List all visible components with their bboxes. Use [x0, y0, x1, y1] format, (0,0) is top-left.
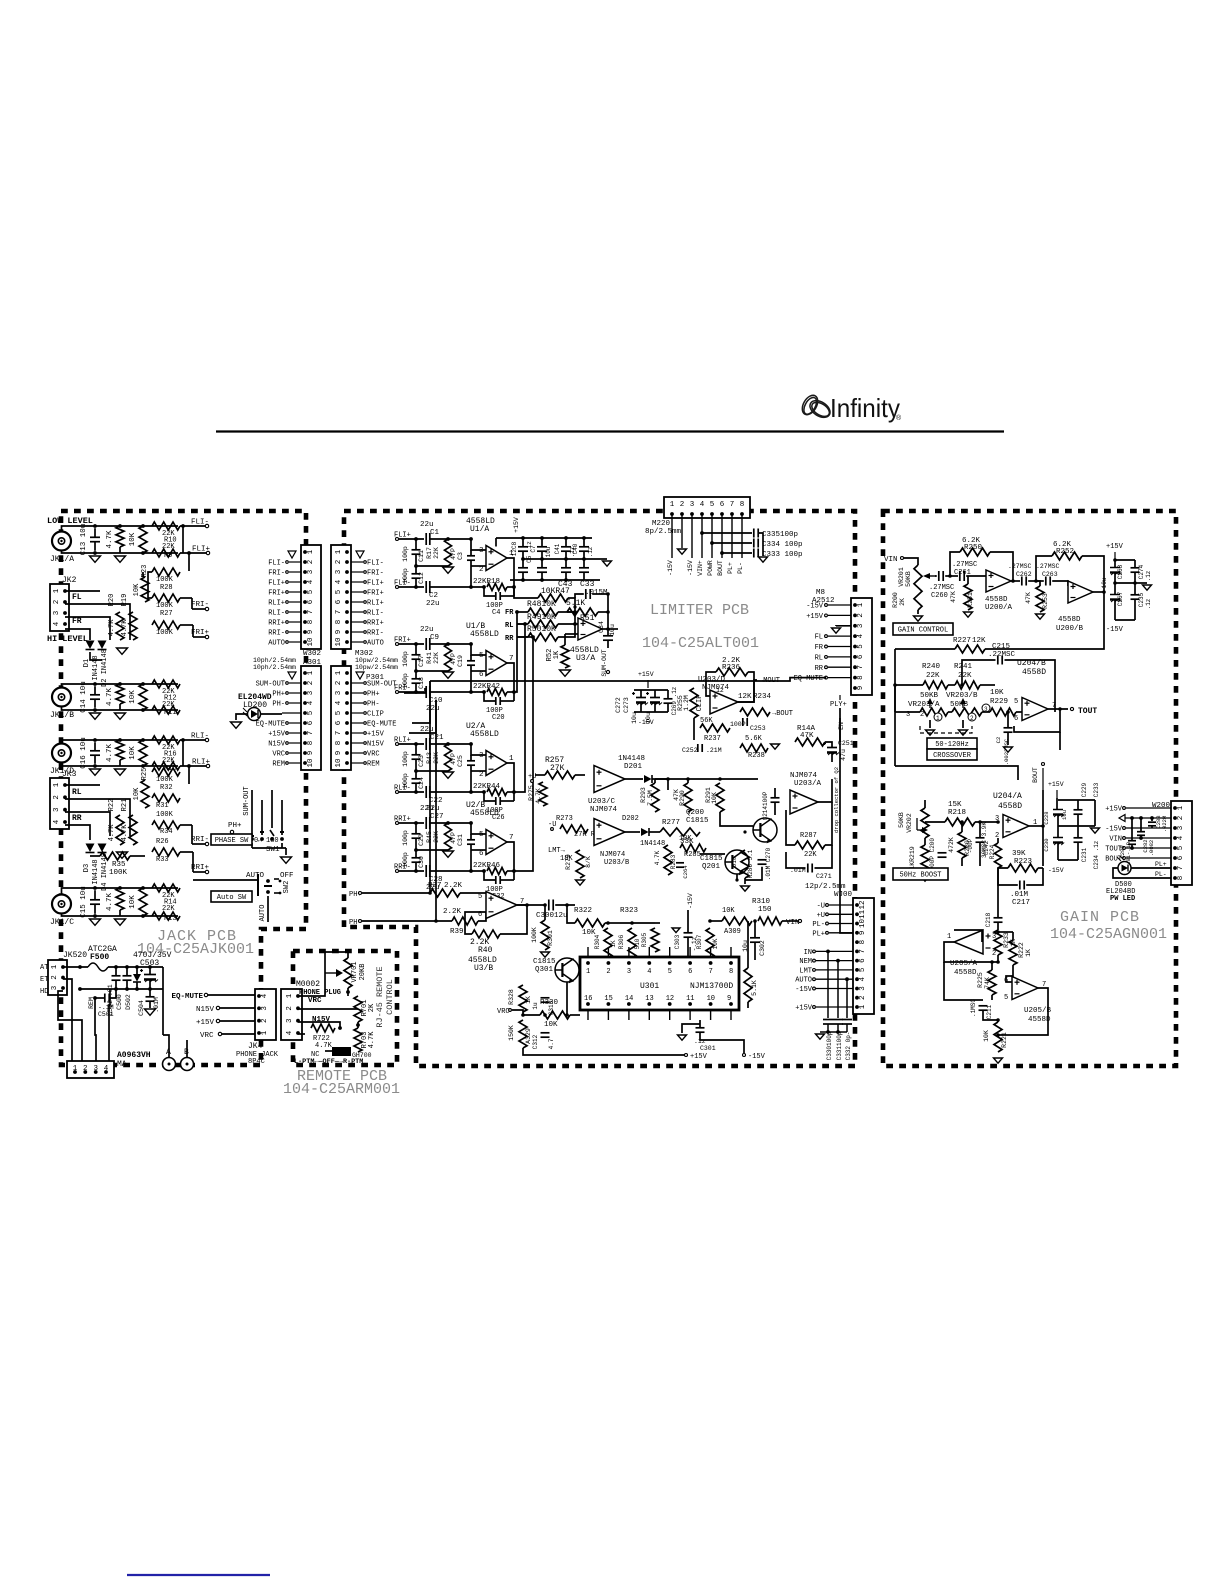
row6 row top rail — [62, 888, 179, 895]
mid rail bot — [634, 711, 668, 713]
capacitor grid top 12C8 — [518, 547, 528, 551]
svg-text:10pw/2.54mm: 10pw/2.54mm — [355, 664, 398, 671]
svg-text:2: 2 — [920, 711, 924, 719]
VRC label remote — [308, 997, 322, 1005]
phase sw wires — [251, 790, 253, 835]
svg-text:22K: 22K — [433, 547, 440, 559]
capacitor C211 .1MSC — [979, 1006, 988, 1010]
svg-text:C7: C7 — [530, 545, 537, 553]
svg-text:U203/C: U203/C — [588, 798, 616, 806]
U1/B - wire2 — [430, 691, 484, 693]
c503 lead2 — [149, 980, 151, 990]
svg-text:3: 3 — [51, 985, 59, 990]
c300 out — [555, 904, 575, 906]
U2/A + wire2 — [430, 743, 471, 745]
svg-text:N15V: N15V — [196, 1006, 215, 1014]
r322 wire — [567, 905, 575, 923]
transistor Q301 — [555, 958, 579, 983]
R306 label — [618, 934, 641, 949]
capacitor C19 47P — [467, 661, 475, 665]
svg-text:104-C25ALT001: 104-C25ALT001 — [642, 635, 759, 652]
U2/A cb1 lead2 — [415, 760, 417, 772]
resistor R39 2.2K — [452, 917, 478, 925]
r51 wires2 — [598, 611, 608, 613]
c34 lead2 — [607, 640, 609, 648]
resistor R257 27K — [535, 771, 585, 779]
5.1K R51 label — [566, 599, 595, 623]
footer blue rule — [127, 1574, 270, 1576]
F500 label — [88, 945, 117, 962]
resistor R24 100K — [152, 621, 180, 629]
SW1 label — [266, 846, 280, 854]
resistor R45 22K — [445, 823, 452, 850]
grid lead b21 — [541, 572, 543, 580]
op-amp U203/B — [594, 819, 625, 846]
resistor R307 10K — [706, 928, 714, 958]
C501 labels — [88, 997, 114, 1018]
ground row4 — [117, 852, 128, 858]
arrow A301 pin1 — [288, 672, 296, 679]
cap grid label 1 — [530, 545, 552, 557]
svg-text:9: 9 — [859, 931, 867, 936]
diode D1 1N4148 — [86, 641, 95, 650]
svg-text:Auto SW: Auto SW — [217, 894, 247, 902]
A wire — [163, 1035, 169, 1057]
U1/B fb right — [507, 691, 514, 693]
c242 w2 — [979, 842, 981, 866]
svg-text:10u: 10u — [1101, 577, 1108, 588]
ground R251 — [964, 612, 973, 617]
U205/A pins — [947, 933, 996, 958]
svg-text:C217: C217 — [1012, 899, 1030, 907]
svg-text:22K: 22K — [926, 672, 940, 680]
W200 signal labels — [1105, 806, 1171, 864]
svg-text:VR203/B: VR203/B — [946, 692, 978, 700]
svg-text:R25: R25 — [141, 768, 149, 781]
capacitor C200 1000P — [938, 853, 947, 857]
svg-text:C20: C20 — [492, 714, 505, 722]
C280 label — [1119, 841, 1132, 868]
CROSSOVER box — [927, 749, 977, 760]
svg-text:C25: C25 — [457, 755, 464, 767]
svg-text:REM: REM — [367, 761, 380, 769]
remote wire3 — [298, 1022, 340, 1028]
op-amp U200/B — [1068, 581, 1093, 603]
C242 label — [967, 838, 990, 855]
C262 label — [1008, 563, 1032, 578]
R40 label — [470, 938, 493, 955]
svg-text:-.1M: -.1M — [98, 1004, 114, 1011]
resistor R221 10K — [994, 1022, 1002, 1052]
R252 label — [1053, 541, 1074, 556]
ground row4 a — [90, 769, 101, 775]
svg-text:VIN+: VIN+ — [697, 560, 704, 576]
ground row6 b — [115, 919, 126, 925]
R1 label — [106, 530, 114, 549]
resistor R27 100K — [152, 594, 180, 602]
svg-text:7.5M: 7.5M — [647, 790, 654, 806]
connector M220 — [664, 497, 750, 518]
w200 vert3b — [1131, 845, 1133, 848]
capacitor C33 .015M — [586, 589, 590, 599]
R46 label — [473, 862, 501, 870]
R722 labels — [313, 1035, 333, 1050]
C216 label — [995, 737, 1010, 766]
svg-text:C3: C3 — [457, 552, 464, 560]
LD200 labels — [238, 693, 272, 710]
svg-text:3: 3 — [859, 986, 867, 991]
svg-text:PH+: PH+ — [272, 691, 285, 699]
R305 label — [641, 932, 648, 947]
svg-text:1: 1 — [73, 1065, 78, 1073]
svg-text:C41: C41 — [554, 543, 561, 554]
svg-text:R224: R224 — [989, 844, 996, 859]
svg-text:RR: RR — [505, 635, 514, 643]
C211 label — [970, 999, 993, 1020]
TOUT node — [1070, 707, 1097, 716]
svg-text:6: 6 — [857, 654, 865, 659]
gcap gnd — [1135, 582, 1147, 584]
svg-text:2K: 2K — [899, 598, 906, 606]
svg-text:22u: 22u — [426, 705, 440, 713]
U2/A fb right — [507, 791, 514, 793]
svg-text:R34: R34 — [160, 828, 173, 836]
svg-text:22KR44: 22KR44 — [473, 783, 501, 791]
remote wire4 — [298, 1033, 305, 1035]
node RRI+ — [394, 816, 411, 825]
svg-text:RR: RR — [815, 665, 824, 673]
U205/A name — [950, 960, 978, 977]
A301 name — [303, 659, 322, 667]
svg-text:R240: R240 — [922, 663, 941, 671]
row1 row bottom rail — [62, 551, 179, 554]
svg-text:U200/A: U200/A — [985, 604, 1013, 612]
r222 dot — [996, 930, 1000, 934]
c269 leads2 — [667, 703, 669, 712]
node VRC jk4 — [200, 1032, 222, 1040]
R238 label — [745, 735, 765, 760]
L-PTM OFF R-PTM — [294, 1058, 363, 1066]
r253 top — [1036, 581, 1040, 586]
resistor R310 150 — [758, 917, 782, 925]
svg-text:C15 10u: C15 10u — [80, 886, 88, 918]
svg-text:12p/2.5mm: 12p/2.5mm — [805, 883, 846, 891]
svg-text:WJ00: WJ00 — [834, 891, 853, 899]
svg-text:LMT→: LMT→ — [548, 847, 566, 855]
U1/B inv riser — [470, 671, 472, 692]
svg-text:6: 6 — [307, 720, 315, 725]
capacitor C253 100P — [743, 718, 747, 726]
svg-text:C14 10u: C14 10u — [80, 681, 88, 713]
FL label — [72, 593, 82, 602]
r309 wire — [710, 920, 722, 922]
cap leads b — [115, 980, 117, 989]
c215 w2 — [1005, 660, 1056, 712]
WJ00 name — [805, 883, 853, 899]
U1/B - wire — [399, 691, 424, 693]
switch SW2 — [258, 874, 281, 922]
C12 label — [402, 568, 425, 584]
resistor R252 6.2K — [1052, 552, 1082, 560]
ground row6 a — [90, 919, 101, 925]
svg-text:CLIP: CLIP — [696, 695, 704, 712]
ground q section — [741, 886, 750, 891]
capacitor C300 12u — [549, 900, 553, 911]
capacitor C21 22u — [426, 738, 430, 750]
ground R279 — [576, 880, 585, 885]
capacitor C271 .01M — [808, 864, 812, 873]
resistor 22K row4 bot — [152, 762, 180, 770]
svg-text:1: 1 — [857, 602, 865, 607]
capacitor C31 47P — [467, 840, 475, 844]
svg-text:VIN: VIN — [884, 556, 898, 564]
svg-text:-15V: -15V — [687, 893, 694, 909]
svg-text:4: 4 — [335, 700, 343, 705]
svg-text:R306: R306 — [618, 934, 625, 949]
svg-text:CLIP: CLIP — [367, 711, 384, 719]
bus RLI+ — [188, 766, 190, 784]
ground row3 a — [90, 713, 101, 719]
node RRI+ — [180, 852, 210, 874]
Infinity logo text — [830, 393, 902, 423]
SW2 label — [283, 881, 291, 894]
diode D4 1N4148 — [98, 844, 107, 853]
U2/A + wire — [399, 743, 424, 745]
header rule — [216, 430, 1004, 432]
grid lead t23 — [583, 551, 585, 559]
svg-text:Q200: Q200 — [686, 809, 705, 817]
U2/A fb loop2 — [500, 800, 514, 802]
svg-text:3: 3 — [307, 569, 315, 574]
svg-text:7: 7 — [307, 610, 315, 615]
capacitor C18 100p — [412, 679, 421, 683]
svg-text:C268: C268 — [1117, 564, 1124, 579]
PH+ label — [228, 822, 242, 834]
vf2 — [517, 623, 525, 625]
svg-text:C4: C4 — [492, 609, 500, 617]
svg-text:PL-: PL- — [812, 921, 825, 929]
svg-text:22u: 22u — [420, 805, 434, 813]
resistor 10K row4 — [141, 780, 149, 808]
node FRI- — [394, 685, 411, 694]
w200 vert1b — [1151, 826, 1153, 828]
row2 bus2 — [148, 572, 152, 598]
svg-text:8: 8 — [857, 675, 865, 680]
svg-text:FLI-: FLI- — [367, 560, 384, 568]
svg-text:4: 4 — [307, 579, 315, 584]
+U label — [528, 773, 536, 782]
U2/A cb2 lead — [415, 771, 417, 779]
svg-text:M0002: M0002 — [296, 980, 320, 989]
resistor R286 510 — [741, 850, 749, 878]
resistor R250 6.2K — [960, 548, 990, 556]
svg-text:R304: R304 — [594, 934, 601, 949]
svg-text:R27: R27 — [160, 610, 173, 618]
svg-text:47P: 47P — [450, 653, 457, 665]
U1/B + wire2 — [430, 643, 471, 645]
c214 wires2 — [774, 802, 776, 815]
U1/B c3 lead — [470, 655, 472, 661]
AUTO rotated — [259, 905, 267, 922]
svg-text:-15V: -15V — [638, 719, 654, 726]
terminal A — [163, 1048, 176, 1071]
C13 label — [80, 524, 88, 556]
svg-text:R35: R35 — [112, 861, 126, 869]
svg-text:47u: 47u — [840, 749, 847, 761]
svg-text:C228: C228 — [1043, 811, 1050, 824]
svg-text:9: 9 — [335, 630, 343, 635]
svg-text:R11: R11 — [164, 709, 177, 717]
mid rail top — [634, 689, 668, 691]
R227 label — [953, 637, 986, 645]
C27 label — [420, 805, 444, 821]
svg-text:2: 2 — [859, 995, 867, 1000]
capacitor C334 100p — [754, 539, 758, 548]
ucr9 — [1058, 859, 1078, 861]
M302 pitch — [355, 657, 398, 671]
C302 label — [742, 940, 766, 956]
svg-text:10K: 10K — [129, 746, 137, 760]
svg-text:.01M: .01M — [1010, 891, 1029, 899]
M220 pin wires — [667, 514, 744, 576]
r224 top — [997, 838, 999, 843]
D1 wire — [90, 652, 102, 660]
svg-text:13: 13 — [645, 995, 653, 1003]
C4 label — [486, 602, 503, 617]
svg-text:R13: R13 — [164, 915, 177, 923]
svg-text:SUM-OUT: SUM-OUT — [256, 681, 285, 689]
capacitor C32 100P — [496, 876, 500, 884]
svg-text:4: 4 — [53, 819, 61, 824]
svg-text:3: 3 — [479, 752, 484, 760]
r250 dots — [948, 574, 1015, 583]
LED LD200 — [243, 708, 261, 721]
stack dots — [573, 605, 577, 625]
c251 wires — [825, 742, 832, 748]
-15V u204a — [1048, 867, 1064, 874]
R17 label — [426, 547, 440, 559]
bus vert a — [429, 681, 431, 893]
svg-text:L-PTM←—OFF—→R-PTM: L-PTM←—OFF—→R-PTM — [294, 1058, 363, 1066]
svg-text:C235: C235 — [1138, 592, 1145, 607]
svg-text:R26: R26 — [156, 838, 169, 846]
svg-text:R19: R19 — [121, 594, 129, 607]
R234 label — [738, 693, 772, 701]
LED D500 — [1117, 856, 1131, 875]
r227 vert — [894, 649, 896, 766]
R39 label — [443, 908, 464, 936]
u3b out — [517, 904, 545, 906]
svg-text:C2: C2 — [429, 592, 438, 600]
gain caps rails — [1114, 560, 1116, 568]
R701 labels — [361, 1000, 376, 1017]
svg-text:.1z: .1z — [587, 546, 594, 557]
q201 wires — [700, 853, 725, 855]
u200a out — [1011, 580, 1020, 582]
capacitor C302 10u — [750, 938, 760, 942]
c273 rails2 — [654, 703, 656, 713]
resistor R283 4.7K — [664, 845, 672, 875]
ucr4 — [1077, 800, 1079, 810]
U2/B cb1 lead2 — [415, 839, 417, 851]
svg-text:1KR219: 1KR219 — [909, 846, 916, 870]
gcr5 — [1134, 572, 1136, 595]
svg-text:4.7K: 4.7K — [108, 824, 116, 842]
C334 label — [762, 541, 803, 549]
ground row1 a — [90, 556, 101, 562]
svg-text:R223: R223 — [1014, 858, 1033, 866]
svg-text:C17: C17 — [418, 655, 425, 667]
C251 label — [838, 740, 854, 761]
M302 signal labels — [351, 560, 384, 648]
svg-text:+15V: +15V — [367, 731, 385, 739]
svg-text:10: 10 — [307, 637, 315, 647]
-15V mid2 — [687, 893, 694, 909]
svg-text:BOUT: BOUT — [1032, 767, 1039, 783]
svg-text:ET: ET — [40, 976, 48, 984]
c303 wires — [687, 910, 689, 933]
u204a caps labels — [1043, 782, 1100, 869]
resistor R14A 47K — [795, 738, 825, 746]
1N4148 D201 label — [618, 755, 645, 771]
R4 label — [106, 744, 114, 763]
U2/B fb loop2 — [500, 879, 514, 881]
svg-text:.27MSC: .27MSC — [1036, 563, 1060, 570]
svg-text:R287: R287 — [800, 832, 817, 840]
connector JK520 — [48, 960, 67, 995]
U200/A name — [985, 596, 1013, 612]
capacitor C335 100p — [754, 529, 758, 538]
svg-text:R279: R279 — [565, 854, 572, 870]
resistor R22 4.7K — [116, 815, 124, 845]
U2/B fb loop — [484, 871, 496, 880]
svg-text:C503: C503 — [140, 959, 159, 968]
capacitor C4 100P — [496, 592, 500, 600]
Q301 label — [533, 958, 556, 974]
svg-text:4: 4 — [700, 501, 705, 509]
svg-text:3: 3 — [1177, 825, 1185, 830]
RL label — [72, 788, 82, 797]
svg-text:47K: 47K — [800, 732, 814, 740]
svg-text:47P: 47P — [450, 548, 457, 560]
capacitor C25 47P — [467, 761, 475, 765]
svg-text:.01M C270: .01M C270 — [765, 847, 772, 880]
C217 label — [1010, 891, 1030, 907]
terminal B — [181, 1048, 194, 1071]
U2/B out drop — [507, 842, 514, 880]
resistor 22K row6 top — [152, 884, 180, 892]
op-amp U203/D — [710, 690, 738, 714]
svg-text:1: 1 — [947, 933, 951, 941]
ground R238 — [771, 744, 780, 749]
U1/B fb loop — [484, 692, 496, 701]
50hz wirea — [924, 800, 926, 808]
remote wire2 — [298, 1008, 358, 1010]
svg-text:472K: 472K — [948, 837, 955, 853]
gnd arrow W200 — [1119, 815, 1171, 822]
svg-text:10K: 10K — [983, 1030, 990, 1042]
W302 pitch — [253, 657, 296, 671]
svg-text:D201: D201 — [624, 763, 643, 771]
svg-text:C264: C264 — [682, 865, 689, 879]
U2/B - wire2 — [430, 870, 484, 872]
eq-mute bus right — [430, 678, 826, 681]
u204b fbw — [1014, 709, 1060, 732]
svg-text:VRC: VRC — [497, 1008, 510, 1016]
node RLI+ — [394, 737, 411, 746]
resistor R34 100K — [152, 821, 180, 829]
capacitor C214 100P — [771, 798, 780, 802]
